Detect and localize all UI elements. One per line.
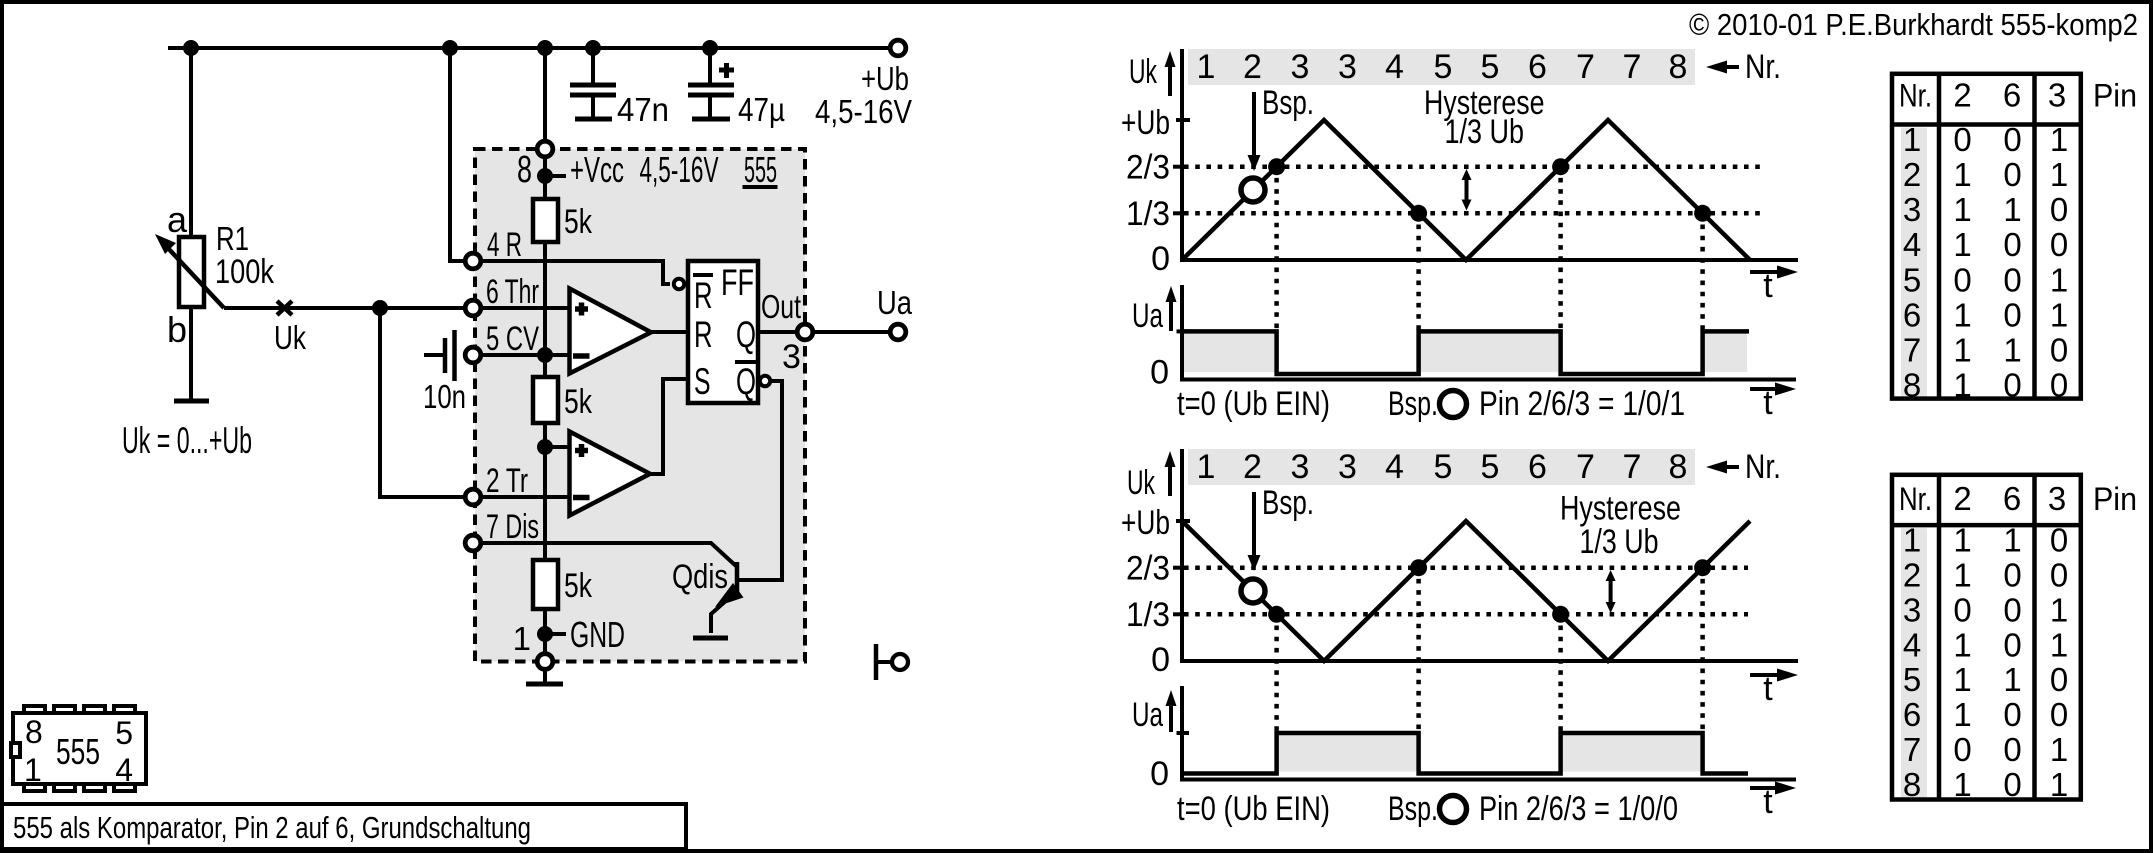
terminal pin 8 bbox=[537, 48, 553, 157]
terminal pin 5 CV bbox=[465, 347, 481, 363]
svg-text:5: 5 bbox=[1903, 661, 1921, 698]
potentiometer R1 bbox=[155, 234, 224, 308]
svg-text:1: 1 bbox=[2003, 522, 2021, 559]
op-amp comparator K2 (trigger) bbox=[570, 432, 651, 516]
svg-text:4: 4 bbox=[115, 752, 133, 788]
svg-text:6: 6 bbox=[2003, 480, 2021, 517]
svg-text:Pin 2/6/3 = 1/0/1: Pin 2/6/3 = 1/0/1 bbox=[1479, 385, 1685, 423]
svg-text:0: 0 bbox=[2050, 367, 2068, 404]
svg-text:3: 3 bbox=[1338, 48, 1357, 86]
truth table 1 bbox=[1892, 74, 2137, 404]
terminal pin 4 R bbox=[465, 253, 481, 269]
svg-text:1: 1 bbox=[1197, 448, 1216, 486]
waveform Uk (diagram 1) bbox=[1182, 120, 1750, 260]
node junction C1 bbox=[585, 40, 601, 56]
wire discharge (base) bbox=[481, 543, 736, 566]
label Qdis bbox=[672, 558, 728, 596]
svg-text:3: 3 bbox=[1291, 48, 1310, 86]
svg-text:0: 0 bbox=[1150, 354, 1169, 392]
axis Uk (diagram 1) bbox=[1121, 49, 1798, 278]
Nr band (diagram 1) bbox=[1188, 48, 1695, 86]
svg-text:R: R bbox=[694, 314, 713, 355]
svg-text:1: 1 bbox=[1953, 661, 1971, 698]
DIP pin numbers and 555 bbox=[24, 714, 133, 788]
svg-text:6: 6 bbox=[2003, 76, 2021, 113]
wire R1 top bbox=[189, 48, 193, 237]
svg-text:1: 1 bbox=[1953, 226, 1971, 263]
svg-text:0: 0 bbox=[1953, 121, 1971, 158]
wire K1 output to FF R bbox=[651, 330, 688, 334]
svg-text:7: 7 bbox=[1623, 448, 1642, 486]
svg-text:1: 1 bbox=[2003, 661, 2021, 698]
inverter bubble (R input) bbox=[674, 279, 684, 289]
svg-text:2: 2 bbox=[1953, 480, 1971, 517]
wire +Ub top rail bbox=[168, 46, 888, 50]
svg-text:4: 4 bbox=[1385, 448, 1404, 486]
transistor Qdis bbox=[711, 562, 782, 633]
Nr arrow label (diagram 1) bbox=[1706, 48, 1781, 86]
FF labels bbox=[693, 262, 756, 402]
svg-text:Nr.: Nr. bbox=[1745, 48, 1781, 86]
svg-text:1: 1 bbox=[2050, 261, 2068, 298]
svg-text:3: 3 bbox=[2048, 480, 2066, 517]
label Uk bbox=[274, 319, 306, 356]
svg-text:8: 8 bbox=[1669, 448, 1688, 486]
svg-text:10n: 10n bbox=[423, 378, 466, 415]
svg-text:1: 1 bbox=[1953, 191, 1971, 228]
caption box bbox=[2, 804, 686, 849]
svg-text:1: 1 bbox=[2003, 191, 2021, 228]
svg-text:3: 3 bbox=[782, 338, 801, 376]
label GND bbox=[570, 614, 625, 655]
svg-text:0: 0 bbox=[2003, 557, 2021, 594]
pin number 3 bbox=[782, 338, 801, 376]
svg-text:0: 0 bbox=[2003, 367, 2021, 404]
svg-text:4,5-16V: 4,5-16V bbox=[815, 93, 912, 130]
svg-text:7: 7 bbox=[1903, 332, 1921, 369]
svg-text:0: 0 bbox=[1953, 731, 1971, 768]
svg-text:5: 5 bbox=[1481, 448, 1500, 486]
svg-text:b: b bbox=[167, 309, 187, 350]
svg-text:2: 2 bbox=[1903, 156, 1921, 193]
svg-text:0: 0 bbox=[2050, 696, 2068, 733]
resistor Rd1 5k bbox=[533, 199, 558, 242]
pin label 4 R bbox=[487, 226, 522, 264]
capacitor C2 47u electrolytic bbox=[688, 48, 734, 119]
svg-text:1: 1 bbox=[1953, 296, 1971, 333]
svg-text:1: 1 bbox=[1953, 522, 1971, 559]
threshold dotted lines (diagram 2) bbox=[1184, 568, 1748, 615]
svg-text:S: S bbox=[694, 361, 711, 402]
flip-flop FF bbox=[688, 261, 758, 403]
svg-text:Uk: Uk bbox=[1129, 53, 1158, 91]
caption text bbox=[13, 810, 531, 845]
label a bbox=[167, 199, 188, 240]
svg-text:1: 1 bbox=[1953, 557, 1971, 594]
switching points (diagram 2) bbox=[1268, 559, 1711, 623]
label +Vcc 4,5-16V 555 bbox=[570, 149, 778, 190]
annotation Bsp pin values (diagram 1) bbox=[1388, 385, 1685, 423]
terminal pin 7 Dis bbox=[465, 535, 481, 551]
svg-text:0: 0 bbox=[1953, 261, 1971, 298]
time arrow Ua (diagram 1) bbox=[1750, 383, 1796, 423]
capacitor C1 47n bbox=[570, 48, 616, 119]
svg-text:7: 7 bbox=[1576, 448, 1595, 486]
svg-text:Bsp.: Bsp. bbox=[1388, 385, 1438, 423]
annotation Bsp pin values (diagram 2) bbox=[1388, 790, 1678, 828]
svg-text:0: 0 bbox=[2003, 731, 2021, 768]
waveform Ua (diagram 2) bbox=[1182, 733, 1748, 774]
svg-text:1: 1 bbox=[1953, 626, 1971, 663]
svg-text:1: 1 bbox=[1197, 48, 1216, 86]
svg-text:t: t bbox=[1763, 670, 1773, 708]
terminal pin 3 bbox=[797, 324, 813, 340]
node pin 1 GND bbox=[537, 626, 566, 642]
svg-text:1: 1 bbox=[24, 752, 42, 788]
svg-text:Pin 2/6/3 = 1/0/0: Pin 2/6/3 = 1/0/0 bbox=[1479, 790, 1678, 828]
svg-text:1: 1 bbox=[2050, 731, 2068, 768]
svg-text:1: 1 bbox=[1953, 367, 1971, 404]
value 5k (Rd1) bbox=[564, 203, 593, 241]
svg-text:1: 1 bbox=[1953, 766, 1971, 803]
svg-text:0: 0 bbox=[1150, 755, 1169, 793]
wire pin-2 link (2 auf 6) bbox=[380, 308, 466, 497]
wire Q output bbox=[758, 330, 888, 334]
svg-text:6: 6 bbox=[1528, 48, 1547, 86]
svg-text:3: 3 bbox=[1338, 448, 1357, 486]
wire K2 output to FF S bbox=[650, 379, 688, 474]
svg-text:Nr.: Nr. bbox=[1745, 448, 1781, 486]
wire divider to K2 plus bbox=[545, 445, 569, 449]
wire trigger bbox=[481, 495, 569, 499]
svg-text:1: 1 bbox=[2050, 626, 2068, 663]
wire divider upper bbox=[543, 242, 547, 377]
svg-text:6: 6 bbox=[1528, 448, 1547, 486]
svg-text:4: 4 bbox=[1385, 48, 1404, 86]
svg-text:5: 5 bbox=[1481, 48, 1500, 86]
svg-text:1: 1 bbox=[2050, 121, 2068, 158]
label R1 100k bbox=[215, 220, 275, 291]
svg-text:t=0 (Ub EIN): t=0 (Ub EIN) bbox=[1177, 385, 1330, 423]
wire reset to FF bbox=[481, 261, 670, 284]
svg-text:t=0 (Ub EIN): t=0 (Ub EIN) bbox=[1177, 790, 1330, 828]
svg-text:1: 1 bbox=[2003, 332, 2021, 369]
svg-text:Uk: Uk bbox=[1127, 464, 1156, 502]
Bsp marker (diagram 2) bbox=[1241, 484, 1314, 603]
terminal +Ub bbox=[890, 40, 906, 56]
svg-text:FF: FF bbox=[721, 262, 754, 303]
svg-text:8: 8 bbox=[1903, 367, 1921, 404]
svg-text:5k: 5k bbox=[564, 203, 593, 241]
svg-text:GND: GND bbox=[570, 614, 625, 655]
svg-text:0: 0 bbox=[2003, 766, 2021, 803]
svg-text:Out: Out bbox=[761, 288, 801, 325]
svg-text:5: 5 bbox=[1434, 448, 1453, 486]
node Uk x-mark bbox=[277, 301, 292, 315]
svg-text:1/3: 1/3 bbox=[1126, 195, 1170, 233]
label Uk = 0...+Ub bbox=[122, 420, 252, 461]
svg-text:8: 8 bbox=[1903, 766, 1921, 803]
wire divider to GND bbox=[543, 609, 547, 652]
time arrow Uk (diagram 2) bbox=[1750, 669, 1798, 709]
svg-text:Bsp.: Bsp. bbox=[1388, 790, 1438, 828]
svg-text:5: 5 bbox=[1903, 261, 1921, 298]
switch point dotted verticals (diagram 1) bbox=[1277, 167, 1703, 332]
svg-text:0: 0 bbox=[2050, 557, 2068, 594]
waveform Uk (diagram 2) bbox=[1182, 521, 1750, 661]
svg-text:Ua: Ua bbox=[1132, 297, 1163, 335]
svg-text:555 als Komparator, Pin 2 auf: 555 als Komparator, Pin 2 auf 6, Grundsc… bbox=[13, 810, 531, 845]
svg-text:0: 0 bbox=[2050, 661, 2068, 698]
svg-text:0: 0 bbox=[2050, 332, 2068, 369]
svg-text:555: 555 bbox=[56, 731, 100, 772]
terminal Ua bbox=[890, 324, 906, 340]
svg-text:6: 6 bbox=[1903, 696, 1921, 733]
svg-text:1: 1 bbox=[513, 620, 531, 657]
wire control voltage bbox=[481, 353, 569, 357]
svg-text:+Ub: +Ub bbox=[861, 60, 909, 97]
svg-text:1: 1 bbox=[1903, 522, 1921, 559]
IC U1 555 boundary (dashed) bbox=[475, 149, 805, 662]
svg-text:2/3: 2/3 bbox=[1126, 550, 1170, 588]
svg-text:a: a bbox=[167, 199, 188, 240]
svg-text:2 Tr: 2 Tr bbox=[486, 462, 528, 500]
label 10n bbox=[423, 378, 466, 415]
node junction pin-4 branch bbox=[442, 40, 458, 56]
terminal pin 1 bbox=[537, 654, 553, 670]
svg-text:+Ub: +Ub bbox=[1121, 104, 1170, 142]
switch point dotted verticals (diagram 2) bbox=[1277, 568, 1703, 733]
svg-text:1/3: 1/3 bbox=[1126, 596, 1170, 634]
svg-text:2/3: 2/3 bbox=[1126, 149, 1170, 187]
pin number 8 bbox=[517, 149, 532, 191]
node divider 1/3 Ub bbox=[537, 439, 553, 455]
svg-text:Qdis: Qdis bbox=[672, 558, 728, 596]
svg-text:2: 2 bbox=[1243, 448, 1262, 486]
node junction C2 bbox=[702, 40, 718, 56]
svg-text:5: 5 bbox=[115, 715, 133, 751]
switching points (diagram 1) bbox=[1268, 158, 1711, 222]
svg-text:t: t bbox=[1763, 267, 1773, 305]
svg-text:0: 0 bbox=[2050, 226, 2068, 263]
svg-text:1: 1 bbox=[2050, 296, 2068, 333]
Hysterese label (diagram 1) bbox=[1424, 84, 1545, 211]
capacitor C3 10n bbox=[424, 330, 455, 381]
svg-text:2: 2 bbox=[1953, 76, 1971, 113]
svg-text:0: 0 bbox=[2003, 296, 2021, 333]
svg-text:Uk = 0...+Ub: Uk = 0...+Ub bbox=[122, 420, 252, 461]
threshold dotted lines (diagram 1) bbox=[1184, 167, 1760, 214]
pin label 2 Tr bbox=[486, 462, 528, 500]
svg-text:Uk: Uk bbox=[274, 319, 306, 356]
pin label 5 CV bbox=[486, 320, 539, 358]
Nr arrow label (diagram 2) bbox=[1706, 448, 1781, 486]
svg-text:0: 0 bbox=[2003, 121, 2021, 158]
wire wiper Uk to pin 6 bbox=[224, 306, 466, 310]
svg-text:Bsp.: Bsp. bbox=[1262, 484, 1314, 522]
annotation t=0 (diagram 1) bbox=[1177, 385, 1330, 423]
svg-text:1: 1 bbox=[1903, 121, 1921, 158]
svg-text:7: 7 bbox=[1903, 731, 1921, 768]
svg-text:1: 1 bbox=[2050, 156, 2068, 193]
svg-text:R: R bbox=[694, 275, 713, 316]
axis Uk (diagram 2) bbox=[1121, 449, 1798, 679]
svg-text:0: 0 bbox=[1953, 591, 1971, 628]
node junction wiper / pin-2 link bbox=[372, 300, 388, 316]
svg-text:4,5-16V: 4,5-16V bbox=[640, 149, 719, 190]
Hysterese label (diagram 2) bbox=[1560, 490, 1681, 614]
svg-text:Nr.: Nr. bbox=[1899, 481, 1932, 517]
svg-text:0: 0 bbox=[2003, 156, 2021, 193]
pin label 6 Thr bbox=[486, 273, 539, 311]
svg-text:6: 6 bbox=[1903, 296, 1921, 333]
svg-text:0: 0 bbox=[2050, 191, 2068, 228]
terminal pin 2 Tr bbox=[465, 489, 481, 505]
svg-text:5: 5 bbox=[1434, 48, 1453, 86]
svg-text:0: 0 bbox=[2003, 696, 2021, 733]
annotation t=0 (diagram 2) bbox=[1177, 790, 1330, 828]
svg-text:3: 3 bbox=[2048, 76, 2066, 113]
svg-text:1/3 Ub: 1/3 Ub bbox=[1580, 523, 1659, 561]
svg-text:© 2010-01 P.E.Burkhardt 555-ko: © 2010-01 P.E.Burkhardt 555-komp2 bbox=[1689, 7, 2138, 42]
value 5k (Rd3) bbox=[564, 567, 593, 605]
svg-text:Pin: Pin bbox=[2093, 481, 2137, 517]
svg-text:R1: R1 bbox=[216, 220, 249, 257]
svg-text:7 Dis: 7 Dis bbox=[486, 508, 539, 546]
ground below pin 1 bbox=[526, 671, 563, 684]
svg-text:100k: 100k bbox=[215, 253, 275, 291]
terminal 0V bar below R1 bbox=[174, 399, 209, 404]
svg-text:4: 4 bbox=[1903, 226, 1921, 263]
label b bbox=[167, 309, 187, 350]
svg-text:t: t bbox=[1763, 783, 1773, 821]
Nr band (diagram 2) bbox=[1188, 448, 1695, 486]
svg-text:2: 2 bbox=[1903, 557, 1921, 594]
svg-text:+Ub: +Ub bbox=[1121, 504, 1170, 542]
label Ua bbox=[877, 284, 913, 321]
inverter bubble (Q-bar) bbox=[760, 376, 770, 386]
wire R1 bottom bbox=[189, 307, 193, 399]
svg-text:3: 3 bbox=[1903, 191, 1921, 228]
svg-text:5k: 5k bbox=[564, 383, 593, 421]
svg-text:0: 0 bbox=[1151, 641, 1170, 679]
node junction pin-8 branch bbox=[537, 40, 553, 56]
svg-text:0: 0 bbox=[2003, 591, 2021, 628]
label 47u bbox=[738, 91, 785, 128]
svg-text:5k: 5k bbox=[564, 567, 593, 605]
svg-text:47n: 47n bbox=[617, 91, 669, 128]
svg-text:8: 8 bbox=[1669, 48, 1688, 86]
svg-text:0: 0 bbox=[2050, 522, 2068, 559]
svg-text:47µ: 47µ bbox=[738, 91, 785, 128]
node pin 8 +Vcc bbox=[537, 158, 566, 199]
svg-text:3: 3 bbox=[1903, 591, 1921, 628]
svg-text:t: t bbox=[1763, 384, 1773, 422]
svg-text:2: 2 bbox=[1243, 48, 1262, 86]
truth table 2 bbox=[1892, 475, 2137, 803]
svg-text:8: 8 bbox=[25, 714, 43, 750]
svg-text:1: 1 bbox=[2050, 766, 2068, 803]
svg-text:7: 7 bbox=[1623, 48, 1642, 86]
label 47n bbox=[617, 91, 669, 128]
Bsp marker (diagram 1) bbox=[1241, 84, 1314, 202]
svg-text:1/3 Ub: 1/3 Ub bbox=[1445, 113, 1525, 151]
wire Q-bar to Qdis collector bbox=[739, 381, 782, 580]
svg-text:+Vcc: +Vcc bbox=[570, 149, 624, 190]
svg-text:0: 0 bbox=[2003, 626, 2021, 663]
svg-text:4: 4 bbox=[1903, 626, 1921, 663]
node divider 2/3 Ub bbox=[537, 347, 553, 363]
resistor Rd2 5k bbox=[533, 377, 558, 423]
svg-text:Pin: Pin bbox=[2093, 77, 2137, 113]
svg-text:Nr.: Nr. bbox=[1899, 77, 1932, 113]
time arrow Uk (diagram 1) bbox=[1750, 266, 1798, 306]
svg-text:Q: Q bbox=[736, 361, 756, 402]
svg-text:Hysterese: Hysterese bbox=[1560, 490, 1681, 528]
svg-text:0: 0 bbox=[2003, 261, 2021, 298]
waveform Ua (diagram 1) bbox=[1182, 331, 1749, 374]
resistor Rd3 5k bbox=[533, 560, 558, 609]
axis Ua (diagram 1) bbox=[1132, 285, 1796, 392]
svg-text:Bsp.: Bsp. bbox=[1262, 84, 1314, 122]
svg-text:0: 0 bbox=[2003, 226, 2021, 263]
svg-text:4 R: 4 R bbox=[487, 226, 522, 264]
ground (Qdis emitter) bbox=[693, 636, 728, 641]
wire pin-4 branch bbox=[450, 48, 466, 261]
terminal Ua reference (0V) bbox=[876, 644, 908, 680]
op-amp comparator K1 (threshold) bbox=[570, 289, 652, 374]
svg-text:1: 1 bbox=[2050, 591, 2068, 628]
time arrow Ua (diagram 2) bbox=[1750, 782, 1796, 822]
terminal pin 6 Thr bbox=[465, 300, 481, 316]
svg-text:3: 3 bbox=[1291, 448, 1310, 486]
svg-text:1: 1 bbox=[1953, 156, 1971, 193]
DIP-8 package 555 bbox=[11, 706, 146, 791]
value 5k (Rd2) bbox=[564, 383, 593, 421]
svg-text:Q: Q bbox=[736, 314, 756, 355]
label Out bbox=[761, 288, 801, 325]
svg-text:5 CV: 5 CV bbox=[486, 320, 539, 358]
copyright bbox=[1689, 7, 2138, 42]
wire threshold bbox=[481, 306, 569, 310]
wire divider lower bbox=[543, 423, 547, 560]
pin label 7 Dis bbox=[486, 508, 539, 546]
svg-text:1: 1 bbox=[1953, 332, 1971, 369]
svg-text:6 Thr: 6 Thr bbox=[486, 273, 539, 311]
axis Ua (diagram 2) bbox=[1132, 686, 1796, 793]
svg-text:1: 1 bbox=[1953, 696, 1971, 733]
svg-text:7: 7 bbox=[1576, 48, 1595, 86]
svg-text:555: 555 bbox=[744, 149, 777, 190]
svg-text:Ua: Ua bbox=[1132, 696, 1163, 734]
pin number 1 bbox=[513, 620, 531, 657]
svg-text:Ua: Ua bbox=[877, 284, 913, 321]
svg-text:0: 0 bbox=[1151, 240, 1170, 278]
label +Ub 4,5-16V bbox=[815, 60, 912, 130]
svg-text:8: 8 bbox=[517, 149, 532, 191]
node junction R1 top bbox=[183, 40, 199, 56]
